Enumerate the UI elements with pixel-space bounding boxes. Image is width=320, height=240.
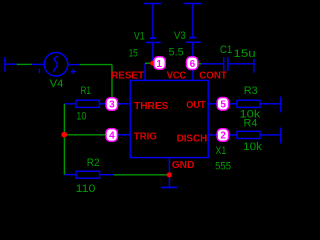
svg-text:110: 110	[76, 183, 96, 195]
svg-text:C1: C1	[220, 44, 232, 56]
svg-text:5.5: 5.5	[169, 47, 184, 59]
svg-text:2: 2	[220, 131, 226, 142]
svg-text:4: 4	[109, 130, 115, 141]
svg-text:DISCH: DISCH	[177, 132, 208, 144]
svg-text:THRES: THRES	[134, 100, 168, 112]
svg-text:R3: R3	[244, 85, 258, 97]
svg-text:R1: R1	[81, 85, 91, 97]
svg-text:555: 555	[215, 160, 231, 172]
svg-text:CONT: CONT	[199, 70, 227, 82]
svg-text:V1: V1	[134, 30, 145, 42]
svg-text:15u: 15u	[233, 48, 255, 60]
svg-text:10k: 10k	[243, 141, 262, 153]
svg-text:V4: V4	[50, 78, 64, 90]
svg-text:5: 5	[220, 99, 226, 110]
svg-text:GND: GND	[172, 159, 195, 171]
svg-text:VCC: VCC	[167, 70, 187, 82]
svg-text:1: 1	[156, 59, 162, 70]
svg-text:6: 6	[190, 59, 196, 70]
svg-text:10: 10	[76, 111, 86, 123]
svg-text:OUT: OUT	[186, 99, 206, 111]
svg-text:TRIG: TRIG	[134, 131, 157, 143]
svg-text:X1: X1	[215, 145, 226, 157]
svg-text:R2: R2	[87, 157, 100, 169]
svg-text:R4: R4	[244, 118, 258, 130]
svg-text:3: 3	[109, 99, 115, 110]
svg-text:RESET: RESET	[111, 70, 144, 82]
svg-text:15: 15	[129, 47, 138, 59]
svg-text:V3: V3	[174, 30, 186, 42]
